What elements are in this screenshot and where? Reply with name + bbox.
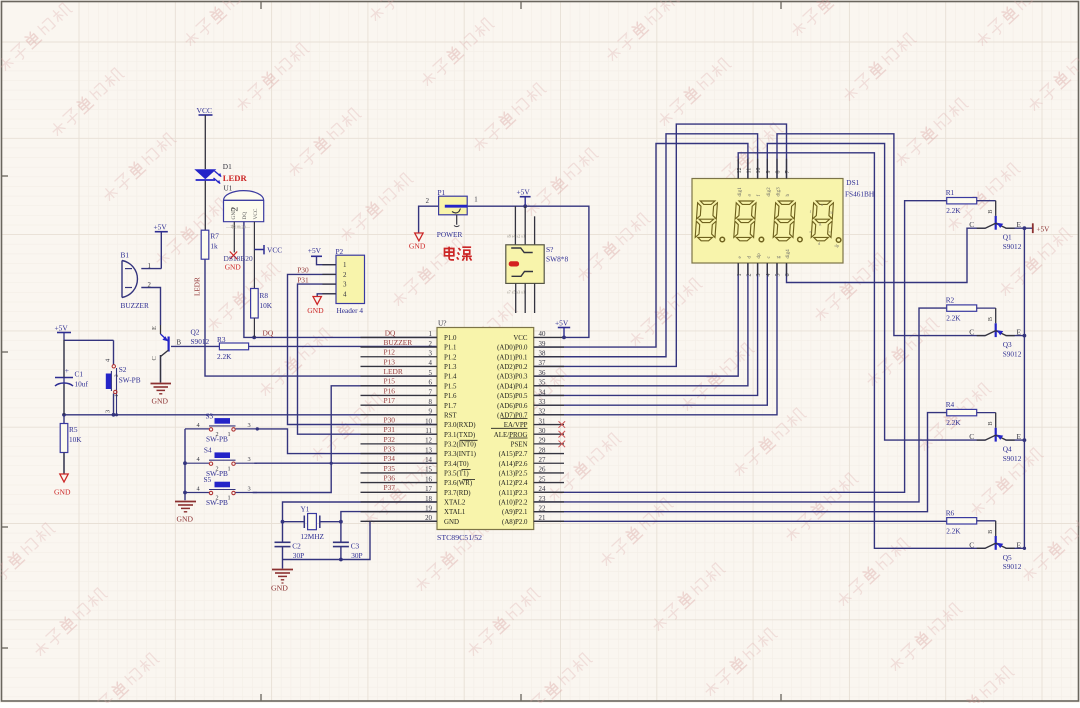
svg-text:8: 8	[429, 399, 433, 406]
svg-text:DS1: DS1	[846, 178, 859, 187]
wire P0.2 MCU pin37 to display top pin7	[534, 124, 787, 366]
wire buzzer +5V	[141, 232, 161, 269]
wire S2 legs	[114, 340, 117, 415]
svg-text:GND: GND	[54, 488, 71, 497]
svg-text:35: 35	[539, 380, 546, 387]
svg-text:1: 1	[228, 495, 231, 502]
ground arrow R5	[54, 453, 71, 497]
svg-text:P3.3(INT1): P3.3(INT1)	[444, 451, 476, 458]
svg-text:P3.5(T1): P3.5(T1)	[444, 471, 469, 478]
wire header P2 pin1 +5V	[317, 256, 337, 264]
svg-text:P30: P30	[297, 266, 309, 275]
svg-text:2: 2	[429, 341, 433, 348]
svg-text:P1.7: P1.7	[444, 403, 457, 410]
svg-text:S?: S?	[546, 245, 553, 254]
svg-text:LEDR: LEDR	[194, 277, 202, 296]
svg-text:(AD2)P0.2: (AD2)P0.2	[497, 364, 528, 371]
svg-text:4: 4	[343, 290, 347, 298]
svg-text:SW-PB: SW-PB	[206, 498, 228, 507]
svg-text:(A10)P2.2: (A10)P2.2	[499, 500, 528, 507]
resistor R8 10K	[251, 289, 273, 338]
svg-text:(A13)P2.5: (A13)P2.5	[499, 471, 528, 478]
svg-text:2.2K: 2.2K	[217, 352, 232, 361]
svg-text:GND: GND	[271, 584, 288, 593]
svg-text:B: B	[177, 340, 182, 347]
svg-text:1: 1	[228, 431, 231, 438]
wire P0.0 MCU pin39 to display top pin11	[534, 144, 748, 348]
svg-text:GND: GND	[177, 515, 194, 524]
ground bars S switches	[175, 502, 196, 524]
junction S5/P34 crossing blob	[330, 462, 333, 465]
svg-text:P37: P37	[384, 483, 396, 492]
svg-text:+5V: +5V	[555, 318, 569, 327]
svg-text:—本18b20—: —本18b20—	[225, 224, 251, 231]
svg-text:20: 20	[425, 515, 432, 522]
svg-text:E: E	[1016, 220, 1021, 229]
pushbutton S5 SW-PB	[185, 482, 257, 507]
resistor R6 2.2K	[946, 508, 977, 535]
svg-text:36: 36	[539, 370, 546, 377]
svg-text:1: 1	[148, 263, 151, 270]
svg-text:S4: S4	[204, 446, 212, 455]
wire dig3 display top pin8 to Q3 collector	[777, 134, 986, 336]
svg-text:a: a	[821, 202, 823, 207]
svg-text:P32: P32	[384, 435, 396, 444]
svg-text:P3.6(WR): P3.6(WR)	[444, 480, 472, 487]
power port +5V buzzer	[154, 222, 168, 231]
svg-text:P1.0: P1.0	[444, 335, 457, 342]
svg-text:b: b	[785, 194, 791, 197]
display DS1 FS461BH 4-digit 7-segment	[692, 178, 875, 263]
svg-text:10: 10	[756, 168, 762, 174]
junction +5V wire SW8	[523, 204, 527, 208]
svg-text:4: 4	[766, 274, 772, 277]
decimal point 2	[759, 237, 764, 242]
power port +5V right rail	[1033, 223, 1050, 233]
svg-text:S9012: S9012	[1003, 454, 1022, 463]
wire P1 pin2 to GND	[419, 206, 439, 233]
svg-text:GND: GND	[231, 208, 237, 220]
svg-text:P3.0(RXD): P3.0(RXD)	[444, 422, 476, 429]
svg-text:(AD3)P0.3: (AD3)P0.3	[497, 374, 528, 381]
svg-text:2.2K: 2.2K	[946, 526, 961, 535]
svg-text:Q5: Q5	[1003, 553, 1012, 562]
svg-text:Q4: Q4	[1003, 445, 1012, 454]
svg-text:s7 s5 s3 s1: s7 s5 s3 s1	[507, 290, 525, 295]
svg-text:(AD4)P0.4: (AD4)P0.4	[497, 383, 528, 390]
wire crystal left to C2	[283, 521, 305, 523]
7seg digit 1	[695, 201, 718, 241]
svg-text:B1: B1	[121, 251, 130, 260]
svg-text:R2: R2	[946, 296, 955, 305]
power port +5V reset	[55, 324, 72, 333]
svg-text:C: C	[969, 432, 974, 441]
svg-text:P1.3: P1.3	[444, 364, 457, 371]
pushbutton S4 SW-PB	[185, 452, 257, 477]
svg-text:P30: P30	[384, 415, 396, 424]
power port +5V MCU VCC	[555, 318, 570, 337]
svg-text:2: 2	[747, 274, 753, 277]
transistor Q4 S9012 PNP	[969, 413, 1021, 463]
transistor Q3 S9012 PNP	[969, 308, 1021, 358]
svg-text:P3.4(T0): P3.4(T0)	[444, 461, 469, 468]
power port +5V near P1	[517, 188, 531, 207]
svg-text:f: f	[755, 195, 762, 197]
wire +5V emitter rail	[1006, 228, 1033, 548]
svg-text:GND: GND	[307, 306, 324, 315]
svg-text:c: c	[829, 229, 831, 234]
ground arrow P1	[409, 233, 426, 250]
svg-text:1: 1	[737, 274, 743, 277]
header P2 Header4	[322, 247, 364, 315]
wire C2 down	[282, 522, 284, 560]
wire S3/S4/S5 ground rail	[184, 429, 186, 500]
junction S5 rail	[183, 491, 187, 495]
svg-text:18: 18	[425, 496, 432, 503]
LED D1	[196, 162, 248, 230]
wire buzzer pin2 to Q2 emitter	[141, 288, 160, 326]
svg-text:BUZZER: BUZZER	[121, 301, 150, 310]
svg-text:Q2: Q2	[191, 328, 200, 337]
wire XTAL1 MCU pin19 to crystal	[341, 512, 437, 522]
wire P31 net header pin3 to MCU pin11	[298, 284, 438, 434]
svg-text:P35: P35	[384, 464, 396, 473]
svg-text:P36: P36	[384, 474, 396, 483]
svg-text:2: 2	[343, 271, 347, 279]
svg-text:12MHZ: 12MHZ	[301, 532, 325, 541]
wire +5V to C1/S2	[64, 332, 114, 415]
svg-text:8: 8	[776, 171, 782, 174]
svg-text:P15: P15	[384, 377, 396, 386]
svg-text:P33: P33	[384, 444, 396, 453]
svg-text:STC89C51/52: STC89C51/52	[437, 533, 482, 542]
svg-text:C: C	[151, 356, 158, 360]
svg-text:DQ: DQ	[263, 328, 274, 337]
wire P0.6 MCU pin33 to display bottom pin4	[534, 263, 768, 405]
svg-text:POWER: POWER	[437, 230, 463, 239]
wire dig2 display top pin9 to Q4 collector	[767, 144, 985, 441]
wire dig1 display top pin12 to Q5 collector	[738, 153, 985, 549]
svg-text:DQ: DQ	[242, 212, 248, 220]
svg-text:(A12)P2.4: (A12)P2.4	[499, 480, 528, 487]
svg-text:DQ: DQ	[385, 328, 396, 337]
svg-text:23: 23	[539, 496, 546, 503]
svg-text:VCC: VCC	[197, 106, 213, 115]
svg-text:3: 3	[343, 281, 347, 289]
svg-text:2: 2	[148, 282, 152, 289]
svg-text:C3: C3	[351, 541, 360, 550]
svg-text:6: 6	[429, 380, 433, 387]
svg-text:P1.6: P1.6	[444, 393, 457, 400]
wire P0.7 MCU pin32 to display bottom pin5	[534, 263, 777, 415]
svg-text:+5V: +5V	[154, 222, 168, 231]
ground bars crystal	[271, 570, 293, 593]
decimal point 3	[798, 237, 803, 242]
svg-text:P3.7(RD): P3.7(RD)	[444, 490, 471, 497]
svg-text:29: 29	[539, 438, 546, 445]
svg-text:P1.5: P1.5	[444, 383, 457, 390]
svg-text:31: 31	[539, 418, 546, 425]
svg-text:30P: 30P	[351, 551, 362, 560]
wire Q2 base to R3 to MCU pin2 BUZZER net	[171, 345, 437, 347]
transistor Q5 S9012 PNP	[969, 521, 1021, 571]
resistor R3 2.2K	[217, 335, 249, 361]
svg-text:13: 13	[425, 447, 432, 454]
svg-text:1: 1	[429, 331, 433, 338]
svg-text:3: 3	[429, 351, 433, 358]
junction C1/R5/RST	[62, 413, 66, 417]
svg-text:P17: P17	[384, 396, 396, 405]
resistor R4 2.2K	[946, 400, 977, 427]
svg-text:XTAL1: XTAL1	[444, 509, 466, 516]
svg-text:30P: 30P	[293, 551, 304, 560]
wire crystal right to C3	[320, 521, 341, 523]
svg-text:3: 3	[248, 456, 251, 463]
svg-text:R4: R4	[946, 400, 955, 409]
connector P1 POWER	[426, 188, 478, 239]
junction S3 output	[256, 427, 259, 430]
svg-text:17: 17	[425, 486, 432, 493]
svg-text:11: 11	[747, 168, 753, 174]
svg-text:FS461BH: FS461BH	[845, 190, 875, 199]
ground bars under Q2	[151, 384, 172, 406]
svg-text:SW-PB: SW-PB	[119, 375, 141, 384]
svg-text:GND: GND	[444, 519, 459, 526]
wire dig4 display bottom pin6 to Q1 collector	[787, 228, 986, 282]
svg-text:Q3: Q3	[1003, 340, 1012, 349]
svg-text:24: 24	[539, 486, 546, 493]
svg-text:(A14)P2.6: (A14)P2.6	[499, 461, 528, 468]
svg-text:E: E	[1016, 432, 1021, 441]
svg-text:GND: GND	[409, 241, 426, 250]
wire P0.3 MCU pin36 to display bottom pin1	[534, 263, 739, 376]
svg-text:(A8)P2.0: (A8)P2.0	[502, 519, 528, 526]
svg-text:10uf: 10uf	[75, 380, 89, 389]
junction Y1/C2	[281, 520, 285, 524]
svg-text:U1: U1	[224, 184, 233, 193]
svg-text:P1.1: P1.1	[444, 345, 457, 352]
svg-text:16: 16	[425, 476, 432, 483]
junction Q5 emitter rail	[1023, 547, 1026, 550]
svg-text:S9012: S9012	[191, 337, 210, 346]
power port VCC top	[197, 106, 213, 169]
transistor Q1 S9012 PNP	[969, 201, 1021, 251]
MCU left pins 1-20	[361, 331, 476, 526]
svg-text:4: 4	[429, 360, 433, 367]
svg-text:B: B	[987, 421, 994, 425]
svg-text:5: 5	[776, 274, 782, 277]
junction DQ/R8	[252, 336, 256, 340]
wire P2.2 MCU pin23 to R2	[534, 308, 947, 502]
capacitor C2 30P	[275, 541, 305, 560]
svg-text:C: C	[969, 540, 974, 549]
svg-text:34: 34	[539, 389, 546, 396]
svg-text:1: 1	[228, 465, 231, 472]
svg-text:S9012: S9012	[1003, 562, 1022, 571]
svg-text:39: 39	[539, 341, 546, 348]
svg-text:6: 6	[785, 274, 791, 277]
svg-text:R7: R7	[210, 232, 219, 241]
svg-text:Header 4: Header 4	[337, 306, 364, 315]
svg-text:BUZZER: BUZZER	[384, 338, 413, 347]
wire C3 down	[340, 522, 342, 560]
svg-text:3: 3	[248, 486, 251, 493]
svg-text:33: 33	[539, 399, 546, 406]
7seg digit 3	[773, 201, 796, 241]
svg-text:E: E	[1016, 328, 1021, 337]
svg-text:1k: 1k	[210, 241, 218, 250]
svg-text:dig4: dig4	[785, 249, 791, 259]
svg-text:B: B	[987, 530, 994, 534]
wire S4 to MCU pin14 P34 net	[254, 462, 437, 464]
svg-text:10: 10	[425, 418, 432, 425]
svg-text:GND: GND	[225, 262, 242, 271]
svg-text:S9012: S9012	[1003, 242, 1022, 251]
svg-text:P13: P13	[384, 357, 396, 366]
display top pins	[737, 159, 791, 197]
no connect X pins 31 30 29	[559, 421, 566, 447]
wire P0.4 MCU pin35 to display bottom pin2	[534, 263, 748, 386]
svg-text:VCC: VCC	[253, 208, 259, 219]
svg-text:RST: RST	[444, 412, 457, 419]
crystal Y1 12MHZ	[301, 505, 325, 542]
svg-text:P1.4: P1.4	[444, 374, 457, 381]
svg-text:40: 40	[539, 331, 546, 338]
svg-text:dig2: dig2	[766, 187, 772, 197]
svg-text:(A9)P2.1: (A9)P2.1	[502, 509, 528, 516]
MCU U? STC89C51/52	[437, 319, 534, 543]
wire MCU pin20 GND rail	[283, 521, 438, 568]
svg-text:S3: S3	[206, 412, 214, 421]
svg-text:P34: P34	[384, 454, 396, 463]
svg-text:LEDR: LEDR	[223, 173, 248, 183]
dip switch S? SW8*8	[506, 206, 569, 313]
buzzer B1	[121, 251, 152, 311]
pushbutton S3 SW-PB	[185, 418, 257, 443]
7seg digit 2	[734, 201, 757, 241]
svg-text:+: +	[65, 366, 69, 375]
junction C3/GND rail	[339, 558, 343, 562]
svg-text:12: 12	[425, 438, 432, 445]
svg-text:S2: S2	[119, 365, 127, 374]
svg-text:15: 15	[425, 467, 432, 474]
svg-text:+5V: +5V	[1037, 225, 1051, 233]
svg-text:Y1: Y1	[301, 505, 310, 514]
svg-text:37: 37	[539, 360, 546, 367]
junction Q1 emitter +5V	[1023, 226, 1027, 230]
decimal point 4	[836, 238, 841, 243]
wire S3 to MCU pin13 P33 net	[257, 429, 437, 454]
wire Q2 collector to GND	[160, 355, 162, 383]
svg-text:VCC: VCC	[513, 335, 528, 342]
svg-text:LEDR: LEDR	[384, 367, 403, 376]
decimal point 1	[720, 237, 725, 242]
svg-text:38: 38	[539, 351, 546, 358]
svg-text:e: e	[810, 229, 812, 234]
svg-text:C1: C1	[75, 370, 84, 379]
svg-text:5: 5	[429, 370, 433, 377]
svg-text:dig1: dig1	[737, 187, 743, 197]
svg-text:+5V: +5V	[517, 188, 531, 197]
svg-text:9: 9	[766, 171, 772, 174]
label dianyuan power chinese	[445, 247, 472, 261]
display bottom pins	[737, 249, 791, 277]
svg-text:12: 12	[737, 168, 743, 174]
sensor U1 DS18B20	[224, 184, 283, 289]
svg-text:GND: GND	[152, 397, 169, 406]
svg-text:C2: C2	[292, 541, 301, 550]
svg-text:d: d	[747, 256, 753, 259]
svg-text:P3.1(TXD): P3.1(TXD)	[444, 432, 475, 439]
svg-text:10K: 10K	[260, 301, 273, 310]
svg-text:2: 2	[426, 198, 430, 205]
svg-text:R5: R5	[69, 425, 78, 434]
ground arrow header	[307, 297, 324, 316]
wire P0.5 MCU pin34 to display bottom pin3	[534, 263, 758, 395]
svg-text:(A15)P2.7: (A15)P2.7	[499, 451, 528, 458]
junction RST/S2	[112, 413, 116, 417]
transistor Q2 S9012	[151, 325, 210, 383]
svg-text:dp: dp	[756, 253, 762, 259]
svg-text:XTAL2: XTAL2	[444, 500, 466, 507]
svg-text:D1: D1	[223, 162, 232, 171]
wire RST net (reset) to MCU pin9	[64, 414, 437, 416]
svg-text:22: 22	[539, 505, 546, 512]
svg-text:C: C	[969, 220, 974, 229]
svg-text:19: 19	[425, 505, 432, 512]
svg-text:U?: U?	[438, 319, 447, 328]
svg-text:s8 s4 s2 s1: s8 s4 s2 s1	[507, 234, 525, 239]
resistor R7 1k	[201, 230, 219, 259]
junction pin40 +5V	[562, 336, 566, 340]
svg-text:S9012: S9012	[1003, 349, 1022, 358]
wire P0.1 MCU pin38 to display top pin10	[534, 134, 758, 357]
pushbutton S2 SW-PB	[105, 358, 141, 413]
svg-text:1: 1	[474, 197, 477, 204]
resistor R1 2.2K	[946, 188, 977, 215]
svg-text:28: 28	[539, 447, 546, 454]
svg-text:7: 7	[429, 389, 433, 396]
svg-text:R6: R6	[946, 508, 955, 517]
wire P2.0 MCU pin21 to R6	[534, 520, 947, 522]
svg-text:PSEN: PSEN	[511, 441, 528, 448]
svg-text:1: 1	[114, 394, 120, 397]
svg-text:25: 25	[539, 476, 546, 483]
svg-text:E: E	[151, 326, 158, 330]
svg-text:dp: dp	[835, 243, 840, 248]
svg-text:P3.2(INT0): P3.2(INT0)	[444, 441, 476, 448]
svg-text:2.2K: 2.2K	[946, 314, 961, 323]
svg-text:3: 3	[248, 422, 251, 429]
svg-text:g: g	[776, 256, 782, 259]
svg-text:R1: R1	[946, 188, 955, 197]
svg-text:(AD6)P0.6: (AD6)P0.6	[497, 403, 528, 410]
junction Y1/C3	[339, 520, 343, 524]
svg-text:P31: P31	[384, 425, 396, 434]
MCU overlines on active-low pins	[460, 419, 528, 480]
svg-text:+5V: +5V	[55, 324, 69, 333]
svg-text:(A11)P2.3: (A11)P2.3	[499, 490, 528, 497]
svg-text:SW8*8: SW8*8	[546, 255, 568, 264]
MCU right pins 40-21	[494, 331, 564, 526]
capacitor C1 10uf polarized	[55, 340, 88, 415]
svg-text:2.2K: 2.2K	[946, 418, 961, 427]
svg-text:26: 26	[539, 467, 546, 474]
wire +5V net from P1 to MCU VCC	[467, 206, 589, 337]
wire header pin4 to GND	[317, 294, 336, 297]
svg-text:P12: P12	[384, 348, 396, 357]
svg-text:(AD0)P0.0: (AD0)P0.0	[497, 345, 528, 352]
